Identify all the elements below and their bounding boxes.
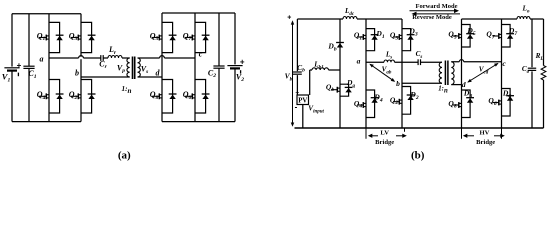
inductor Lo in HV top rail (517, 18, 530, 20)
mosfet Q4 (39, 95, 46, 97)
diode D7 (506, 33, 514, 35)
mosfet Q8 (152, 95, 159, 97)
body diode of Q5 (169, 34, 177, 36)
diode D4 (371, 97, 379, 99)
mosfet Q6 (b) (493, 102, 499, 104)
inductor Lb1 (312, 68, 329, 70)
HV bridge annotation (461, 128, 463, 139)
svg-text:+: + (295, 89, 299, 96)
diode D1 (371, 34, 379, 36)
input voltage arrow (292, 23, 294, 126)
wire: V1 branch top (11, 14, 13, 67)
voltage arrow Vcd (468, 64, 498, 83)
mosfet Q1 (39, 37, 46, 39)
body diode of Q4 (56, 93, 64, 95)
svg-text:Bridge: Bridge (476, 139, 495, 146)
wire: Co branch bottom (531, 71, 533, 128)
diode D5 (466, 33, 474, 35)
wire hop over right leg1 (160, 57, 165, 59)
resistor RL (541, 66, 546, 81)
battery V2 (227, 65, 242, 67)
wire: V2 branch bottom (234, 69, 236, 122)
switch cell Q2 (b) (402, 87, 411, 115)
wire: top rail LV section (297, 18, 402, 20)
transformer (b) primary winding (439, 62, 442, 83)
svg-text:a: a (40, 55, 44, 64)
switch cell Q5 (162, 22, 173, 52)
body diode of Q3 (88, 34, 96, 36)
battery V1 (4, 67, 19, 69)
wire: riser from PV+ to Lb1 (309, 70, 311, 95)
mosfet Q7 (185, 37, 192, 39)
wire: C2 branch bottom (218, 68, 220, 121)
LV bridge annotation (365, 128, 367, 139)
wire: Lr to transformer (122, 57, 130, 59)
switch cell Q7 (b) (502, 25, 511, 48)
svg-text:LV: LV (380, 130, 389, 137)
wire: C2 branch top (218, 13, 220, 66)
svg-text:+: + (240, 57, 245, 66)
diode D8 (466, 97, 474, 99)
wire: secondary bottom to node d (451, 84, 461, 86)
wire: top rail left bridge (12, 13, 81, 15)
mosfet Qb (331, 89, 337, 91)
wire: node b to transformer (402, 82, 442, 84)
mosfet Q5 (152, 37, 159, 39)
switch cell Q1 (b) (366, 29, 375, 51)
wire: HV leg2 (501, 19, 503, 128)
svg-text:+: + (287, 15, 291, 22)
wire: Co branch top (531, 19, 533, 67)
wire: secondary top to node c (451, 61, 501, 63)
switch cell Q7 (195, 22, 206, 52)
voltage arrow Vab (370, 64, 394, 81)
wire: bottom rail right bridge (162, 121, 235, 123)
V2 minus dash (240, 70, 242, 73)
mosfet Q8 (b) (453, 104, 459, 106)
svg-text:HV: HV (480, 130, 490, 137)
body diode of Q8 (169, 93, 177, 95)
wire: secondary bottom to node d (138, 76, 163, 78)
transformer secondary winding (138, 58, 141, 77)
diode Db (336, 42, 344, 44)
capacitor Cr (100, 55, 102, 61)
V1 minus dash (17, 73, 19, 77)
wire: V1 branch bottom (11, 71, 13, 121)
wire: Lb1 to boost node (329, 69, 341, 71)
reverse mode arrow and label (415, 13, 461, 15)
wire: node a to Ls (366, 61, 384, 63)
body diode of Q1 (56, 34, 64, 36)
boost switch leg (339, 70, 341, 128)
capacitor Cb (293, 71, 302, 73)
transformer primary winding (127, 58, 130, 77)
mosfet Q6 (185, 95, 192, 97)
wire: leg2 left bridge (80, 14, 82, 122)
svg-text:PV: PV (298, 97, 307, 104)
wire: leg1 left bridge (48, 14, 50, 122)
switch cell Q8 (162, 80, 173, 114)
switch cell Q1 (49, 22, 60, 52)
wire: bottom rail left bridge (12, 121, 81, 123)
body diode of Q2 (88, 93, 96, 95)
mosfet Q3 (71, 37, 78, 39)
mosfet Q5 (b) (453, 35, 459, 37)
svg-text:Bridge: Bridge (375, 139, 394, 146)
switch cell Qb (340, 84, 349, 96)
diode D6 (506, 95, 514, 97)
switch cell Q4 (b) (366, 90, 375, 118)
wire: HV top rail (462, 18, 544, 20)
wire: C1 branch top (28, 14, 30, 66)
wire hop over leg2 (79, 57, 84, 59)
wire: C1 branch bottom (28, 68, 30, 121)
wire: HV leg1 (461, 19, 463, 128)
switch cell Q6 (195, 80, 206, 114)
inductor Lr (108, 56, 122, 59)
switch cell Q5 (b) (462, 25, 471, 48)
hop over HV leg1 (459, 61, 463, 63)
mosfet Q2 (71, 95, 78, 97)
switch cell Q3 (b) (402, 29, 411, 51)
svg-text:(b): (b) (411, 149, 425, 161)
diode Dq (345, 86, 353, 88)
svg-text:-: - (295, 103, 298, 112)
diode D3 (407, 34, 415, 36)
svg-text:Forward Mode: Forward Mode (415, 3, 457, 10)
wire: node b to transformer (81, 76, 130, 78)
wire: node a to Cr (49, 57, 101, 59)
svg-text:(a): (a) (118, 149, 131, 161)
svg-text:a: a (357, 57, 361, 66)
wire: LV leg2 (401, 19, 403, 128)
wire: secondary top to node c (138, 57, 196, 59)
mosfet Q2 (b) (393, 101, 399, 103)
boost diode branch Db (339, 19, 341, 70)
transformer core (132, 57, 134, 80)
svg-text:+: + (17, 61, 22, 70)
wire: left rail top (296, 19, 298, 71)
capacitor C1 (23, 65, 34, 67)
capacitor C2 (213, 65, 224, 67)
inductor Ls (384, 60, 395, 62)
wire: V2 branch top (234, 13, 236, 64)
wire: leg1 right bridge (161, 13, 163, 122)
capacitor Cs (417, 59, 419, 65)
wire: Ls to Cs (395, 61, 419, 63)
svg-text:b: b (75, 68, 79, 77)
inductor Ldc in top rail (343, 18, 357, 20)
svg-text:c: c (199, 49, 203, 58)
body diode of Q6 (202, 93, 210, 95)
switch cell Q6 (b) (502, 89, 511, 117)
wire: Cs to transformer (421, 61, 443, 63)
switch cell Q3 (81, 22, 92, 52)
wire: PV to bottom rail (302, 105, 304, 129)
mosfet Q4 (b) (357, 104, 363, 106)
transformer (b) core (444, 61, 446, 86)
svg-text:Reverse Mode: Reverse Mode (412, 14, 452, 21)
transformer (b) secondary winding (451, 62, 454, 85)
body diode of Q7 (202, 34, 210, 36)
diode D2 (407, 94, 415, 96)
wire: Cr to Lr (103, 57, 108, 59)
wire: left rail below Cb (296, 75, 298, 95)
mosfet Q1 (b) (357, 36, 363, 38)
wire: top rail right bridge (162, 12, 235, 14)
load resistor RL branch (543, 19, 545, 66)
wire: bottom rail figure b (295, 127, 544, 129)
switch cell Q4 (49, 80, 60, 114)
capacitor Co (528, 67, 536, 69)
mosfet Q3 (b) (393, 36, 399, 38)
PV source box (297, 95, 309, 105)
svg-text:b: b (396, 79, 400, 88)
wire: LV leg1 (365, 19, 367, 128)
mosfet Q7 (b) (493, 35, 499, 37)
switch cell Q2 (81, 80, 92, 114)
switch cell Q8 (b) (462, 90, 471, 118)
wire: leg2 right bridge (194, 13, 196, 122)
